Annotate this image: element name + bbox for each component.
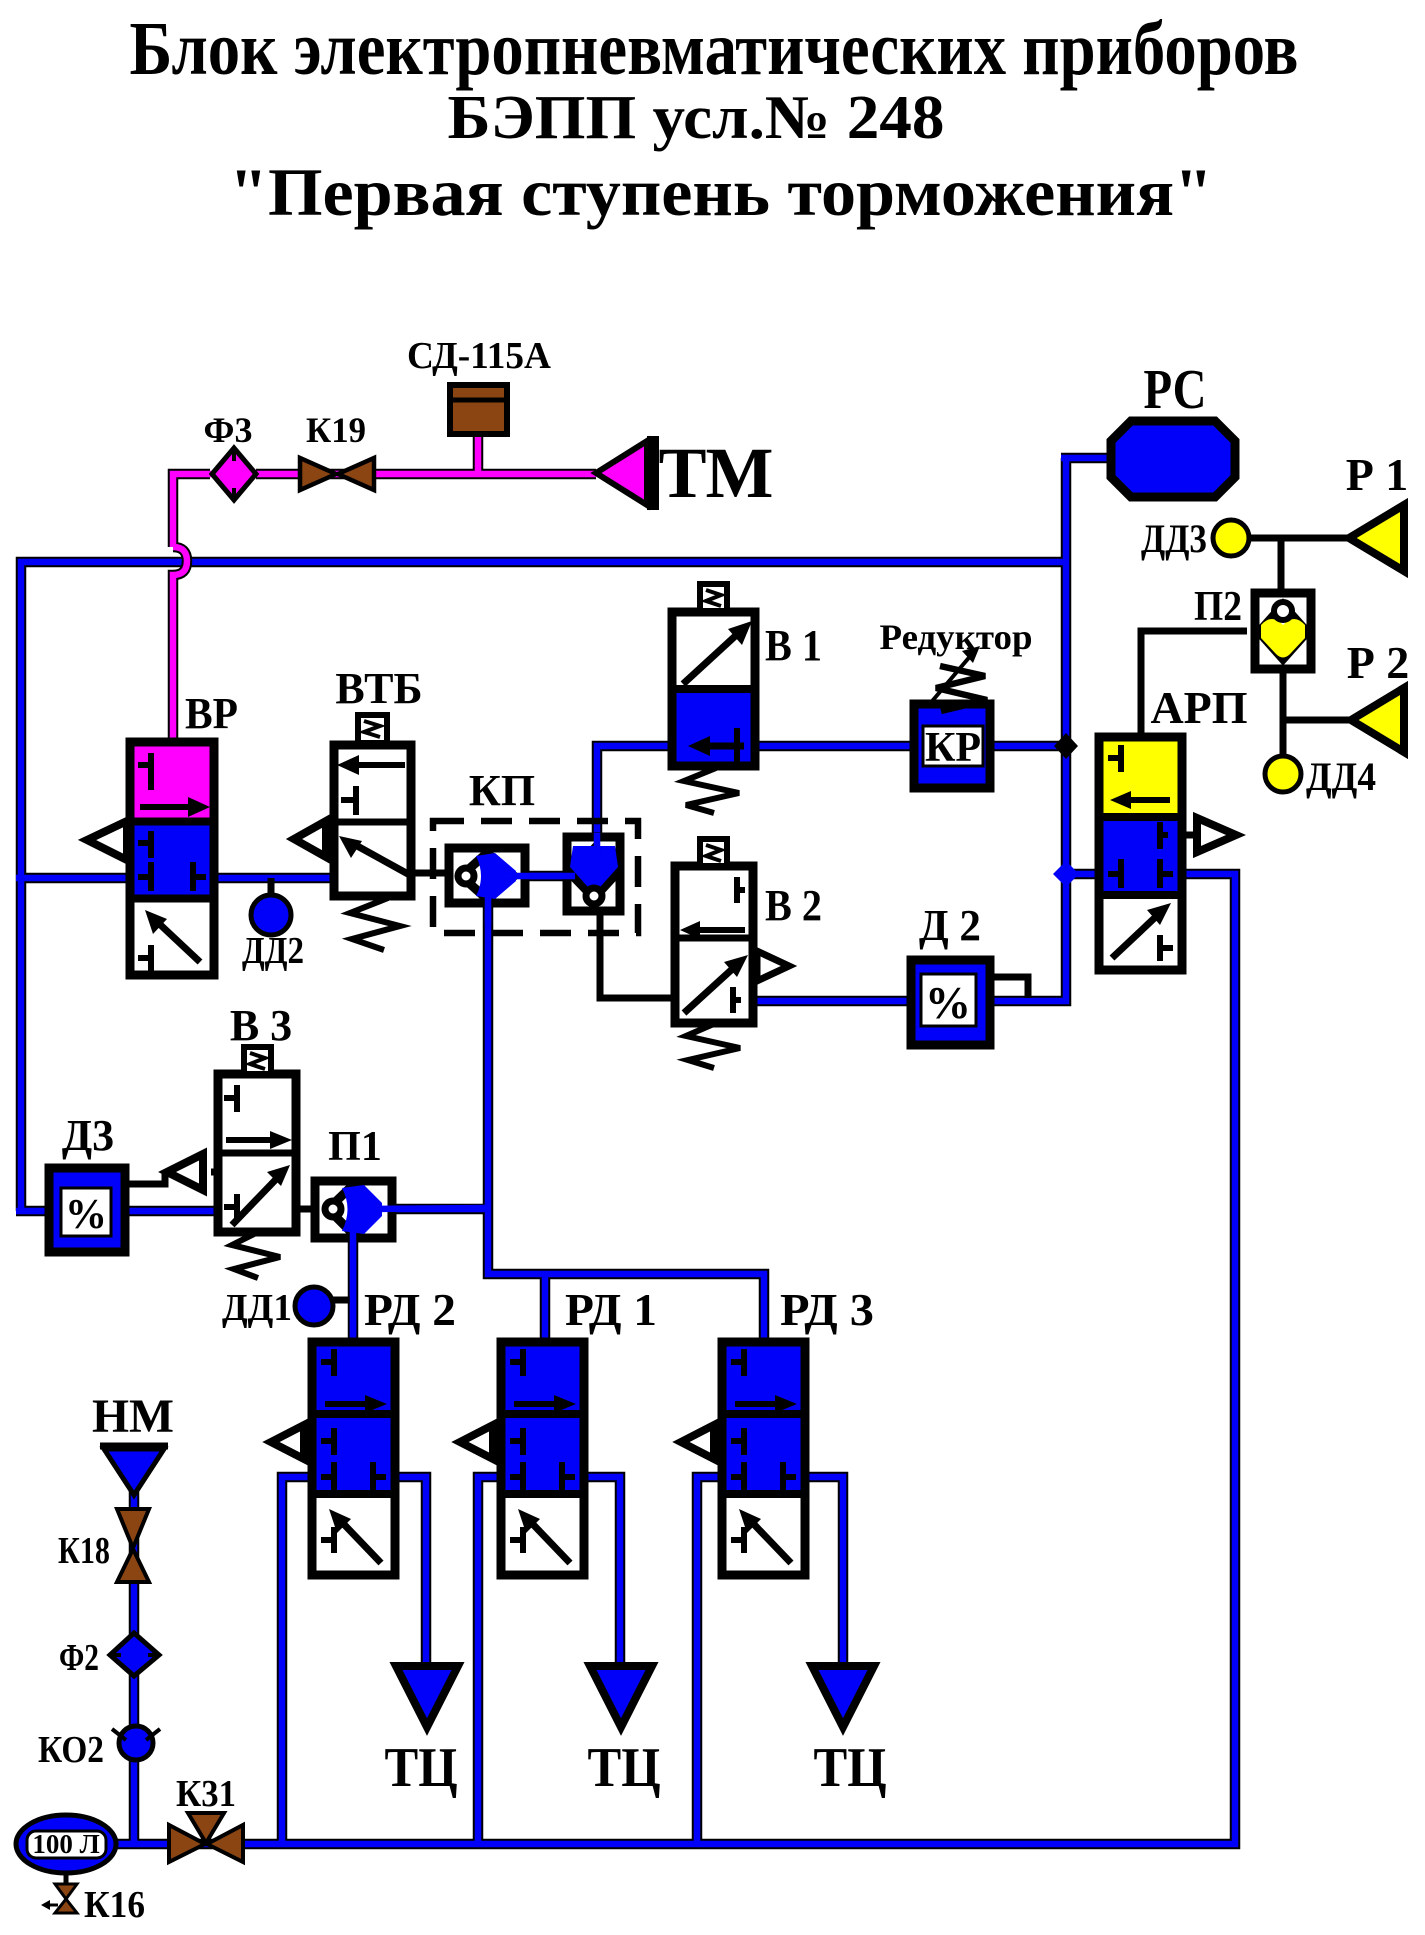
svg-text:В 3: В 3 [230,1001,292,1050]
wire: KP box1 down distribution [488,885,764,1346]
horn R2 [1351,688,1404,752]
svg-text:Ф2: Ф2 [59,1637,99,1679]
wire: RD1 left port down [478,1477,509,1844]
svg-text:"Первая ступень торможения": "Первая ступень торможения" [229,154,1213,230]
wire: RD1 right to TC [579,1477,620,1690]
wire: VTB to KP box1 [415,870,449,877]
wire: NM column [131,1484,138,1844]
wire: D2 right elbow [988,977,1028,998]
svg-text:Д 2: Д 2 [919,901,981,950]
node: ARP-trunk junction [1053,861,1079,887]
wire: RD2 right to TC [387,1477,426,1690]
wire: KP box2 down to V2 [600,911,675,998]
wire: RD3 right to TC [800,1477,843,1690]
svg-text:100 Л: 100 Л [32,1829,99,1859]
reducer KR [914,646,990,788]
gauge DD1 [295,1287,333,1325]
svg-text:К18: К18 [58,1530,110,1572]
wire: KP box2 top to V1 to KR [597,746,914,838]
spring V2 [686,1023,740,1068]
shuttle valve P2 [1255,593,1311,669]
brake cylinder arrow TC1 [396,1666,458,1727]
svg-text:ТМ: ТМ [658,433,773,513]
svg-text:КО2: КО2 [38,1729,104,1771]
svg-text:АРП: АРП [1150,682,1247,733]
exhaust at V2 [753,963,758,970]
svg-text:ВТБ: ВТБ [335,664,422,713]
wire: KR to trunk [990,741,1066,752]
regulator ARP [1099,737,1236,970]
wire: D3 exhaust elbow [125,1171,165,1184]
svg-text:Блок электропневматических при: Блок электропневматических приборов [130,7,1299,91]
svg-text:П1: П1 [328,1124,382,1170]
wire: V2 to D2 [749,998,915,1005]
valve K18 [117,1509,149,1582]
valve K31 [169,1813,243,1862]
check valve KP-1 [449,848,525,903]
reservoir RS [1111,421,1235,497]
vent valve V2 [675,839,789,1068]
wire: P2 bottom to DD4 and R2 [1283,669,1354,758]
wire: branch to RD1 top [542,1274,549,1346]
svg-text:СД-115А: СД-115А [407,335,552,377]
svg-text:НМ: НМ [92,1390,174,1443]
node: KR-trunk junction [1054,733,1078,759]
wire: feed to D3 [16,1206,49,1217]
exhaust at RD3 [714,1439,722,1446]
svg-text:ВР: ВР [185,689,238,738]
svg-text:РД 2: РД 2 [364,1284,456,1335]
check valve KP-2 [567,837,620,911]
wire: RD3 left port down [697,1477,734,1844]
wire: RS connection [1061,453,1115,464]
wire: TM main magenta line [173,474,596,547]
wire: ARP feed [1066,869,1107,880]
wire: P1 output [392,1204,488,1215]
check valve KO2 [112,1726,160,1760]
exhaust at RD2 [304,1439,312,1446]
valve K16 [41,1872,77,1913]
svg-text:КР: КР [925,725,981,771]
wire: ARP feed [1066,871,1107,878]
wire: KP link overlay [505,873,575,880]
wire: top header line [21,562,1066,1211]
spring V3 [232,1232,280,1278]
svg-text:Д3: Д3 [62,1111,114,1160]
svg-text:К16: К16 [84,1884,145,1926]
wire: RD1 left port down [478,1477,509,1844]
vent valve V3 [167,1047,296,1278]
solenoid V2 [700,839,727,866]
wire: ARP output down to bottom line [110,874,1235,1844]
svg-text:ДД4: ДД4 [1306,754,1376,799]
wire: RD2 left port down [282,1477,320,1844]
svg-text:ТЦ: ТЦ [385,1737,458,1799]
svg-text:ДД1: ДД1 [222,1287,292,1329]
wire: KR to trunk [990,743,1066,750]
safety valve VTB [294,715,411,950]
wire: DD1 stub [332,1297,353,1304]
svg-text:К31: К31 [176,1773,236,1815]
filter F3 [212,448,256,500]
wire: RD2 right to TC [387,1477,426,1690]
wire: trunk vertical [988,458,1066,1001]
check valve P1 [315,1181,392,1238]
brake cylinder arrow TC3 [812,1666,874,1727]
wire: KP box1-box2 link [525,871,567,882]
solenoid V1 [700,584,727,611]
wire: DD2 stub [268,878,275,897]
spring VTB [350,898,400,950]
horn R1 [1349,505,1404,571]
wire: RD3 left port down [697,1477,734,1844]
wire: feed to D3 [16,1208,49,1215]
svg-text:%: % [925,977,971,1028]
feed funnel NM [100,1446,168,1495]
wire: P1 blue output overlay [372,1208,488,1209]
wire: P1 down to RD2 [350,1238,357,1346]
svg-text:В 1: В 1 [765,621,822,670]
svg-text:Р 1: Р 1 [1346,449,1409,500]
reservoir 100L [16,1815,116,1873]
svg-text:ДД3: ДД3 [1141,516,1207,561]
pressure switch SD-115A [450,385,507,434]
wire: KP box1 down distribution [488,885,764,1346]
relay valve RD1 [460,1342,584,1575]
wire: RD3 right to TC [800,1477,843,1690]
svg-text:В 2: В 2 [765,881,822,930]
relay valve RD3 [681,1342,805,1575]
filter F2 [110,1633,159,1676]
svg-text:КП: КП [469,766,535,815]
svg-text:БЭПП усл.№ 248: БЭПП усл.№ 248 [448,84,945,152]
KP dashed enclosure [433,821,638,933]
exhaust at ARP [1182,832,1197,839]
gauge DD2 [251,895,291,935]
wire: TM main magenta line [173,474,596,547]
wire: V3 to P1 [296,1206,315,1213]
wire: RD2 left port down [282,1477,320,1844]
solenoid VTB [358,715,387,743]
svg-text:П2: П2 [1194,584,1242,630]
wire: RS connection [1061,455,1115,462]
spring V1 [684,768,739,813]
relay valve RD2 [271,1342,395,1575]
wire: V2 to D2 [749,996,915,1007]
wire: mid main line to VTB [16,873,334,884]
wire: P2 left to ARP top [1141,631,1247,741]
wire: NM column [129,1484,140,1844]
TM funnel [596,436,659,510]
wire: top header line [21,562,1066,1211]
wire: trunk vertical [988,458,1066,1001]
wire: KP box2 top to V1 to KR [597,746,914,838]
gauge DD3 [1213,520,1249,556]
wire: KP box1 bottom overlay [485,880,492,925]
wire: ARP output down to bottom line [110,874,1235,1844]
valve K19 [300,458,374,490]
wire: SD-115A stub [475,430,482,474]
wire: KP box1-box2 link [525,873,567,880]
solenoid V3 [244,1047,271,1074]
wire: magenta bridge over blue [173,547,187,747]
exhaust at VR [127,837,132,844]
exhaust at RD1 [493,1439,501,1446]
wire: RD1 right to TC [579,1477,620,1690]
exhaust at VTB [326,836,336,843]
wire: magenta bridge over blue [173,547,187,747]
svg-text:Р 2: Р 2 [1347,637,1410,688]
svg-text:РД 3: РД 3 [780,1284,874,1335]
svg-text:К19: К19 [306,410,366,450]
wire: SD-115A stub [473,430,484,474]
wire: P1 blue bottom overlay [350,1222,357,1346]
wire: P1 down to RD2 [348,1238,359,1346]
throttle D3 [49,1168,125,1252]
vent valve V1 [672,584,755,813]
svg-text:ТЦ: ТЦ [588,1737,661,1799]
svg-text:РД 1: РД 1 [565,1284,657,1335]
svg-text:ТЦ: ТЦ [814,1737,887,1799]
throttle D2 [911,960,990,1045]
wire: D3 to V3 [121,1208,222,1215]
wire: DD3 to R1 with P2 drop [1247,538,1352,593]
wire: D3 to V3 [121,1206,222,1217]
svg-text:РС: РС [1144,359,1207,421]
wire: P1 output [392,1206,488,1213]
svg-text:Ф3: Ф3 [204,410,253,450]
svg-text:Редуктор: Редуктор [880,617,1033,657]
brake distributor VR [87,742,214,975]
wire: branch to RD1 top [540,1274,551,1346]
brake cylinder arrow TC2 [590,1666,652,1727]
svg-text:%: % [65,1192,107,1238]
wire: mid main line to VTB [16,875,334,882]
gauge DD4 [1265,756,1301,792]
svg-text:ДД2: ДД2 [242,930,304,972]
wire: KP box2 top overlay [594,833,601,860]
exhaust at V3 [211,1169,218,1176]
